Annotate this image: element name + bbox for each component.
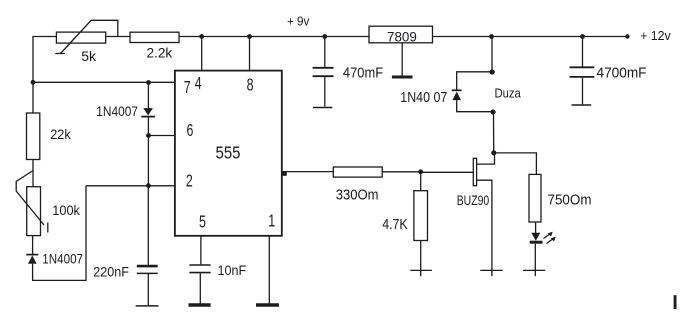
svg-text:330Om: 330Om bbox=[336, 186, 379, 203]
node junction 220nF bbox=[146, 183, 151, 188]
svg-text:BUZ90: BUZ90 bbox=[457, 193, 490, 208]
svg-text:7: 7 bbox=[184, 78, 191, 98]
wire drain node to MOSFET drain bbox=[477, 153, 495, 164]
svg-text:1N4007: 1N4007 bbox=[96, 104, 138, 119]
ground pin5 bbox=[189, 303, 211, 306]
node junction Duza rail bbox=[489, 34, 494, 39]
wire drain node to 750Om bbox=[494, 153, 536, 175]
node junction 4700mF bbox=[580, 34, 585, 39]
wire pin 1 bbox=[268, 236, 270, 304]
capacitor 10nF bbox=[189, 262, 246, 304]
potentiometer 5k bbox=[55, 20, 118, 64]
node Duza lower terminal bbox=[491, 109, 496, 114]
resistor 330Om bbox=[333, 167, 382, 203]
node junction 470mF bbox=[322, 34, 327, 39]
svg-text:5: 5 bbox=[199, 212, 206, 232]
wire pin 7 bbox=[33, 81, 175, 83]
wire 4.7K to ground bbox=[420, 241, 422, 277]
diode 1N4007 (pin7 to pin6, cathode down) bbox=[141, 108, 155, 117]
node junction pin8 rail bbox=[247, 34, 252, 39]
diode 1N4007 flyback (cathode up) bbox=[452, 90, 462, 100]
svg-text:4700mF: 4700mF bbox=[597, 65, 647, 82]
node junction pin6 bbox=[146, 133, 151, 138]
wire diode to pin6 node bbox=[147, 118, 149, 136]
wire rail end bbox=[583, 36, 628, 38]
wire 4.7K top stub bbox=[420, 172, 422, 191]
node junction diode top bbox=[146, 80, 151, 85]
wire Duza upper terminal to diode cathode bbox=[457, 72, 493, 91]
ground 4.7K bbox=[410, 269, 432, 271]
capacitor 470mF bbox=[313, 37, 384, 108]
wire rail 7809 to +12v bbox=[433, 36, 583, 38]
transistor BUZ90 MOSFET bbox=[457, 158, 492, 276]
wire pin 8 stub bbox=[249, 37, 251, 70]
node +12v terminal bbox=[625, 34, 629, 38]
svg-text:100k: 100k bbox=[52, 202, 80, 218]
svg-text:10nF: 10nF bbox=[218, 262, 247, 278]
capacitor 220nF bbox=[93, 186, 158, 306]
potentiometer 100k bbox=[16, 171, 81, 236]
svg-text:555: 555 bbox=[216, 142, 241, 162]
wire diode bottom around to pin2 bbox=[33, 186, 86, 281]
wire pin6 node down to pin2 node bbox=[147, 136, 149, 186]
node junction left rail pin7 bbox=[31, 80, 36, 85]
svg-text:2.2k: 2.2k bbox=[147, 46, 173, 61]
resistor 22k bbox=[27, 113, 71, 160]
svg-text:1: 1 bbox=[268, 212, 275, 232]
wire LED to ground bbox=[534, 244, 536, 276]
svg-text:22k: 22k bbox=[50, 126, 71, 142]
svg-text:470mF: 470mF bbox=[343, 65, 383, 81]
regulator 7809 bbox=[369, 26, 433, 45]
wire down to Duza upper terminal bbox=[491, 37, 493, 73]
svg-text:4.7K: 4.7K bbox=[382, 217, 408, 233]
svg-text:7809: 7809 bbox=[387, 29, 417, 45]
svg-text:Duza: Duza bbox=[495, 85, 522, 100]
wire diode top bbox=[147, 83, 149, 109]
ground LED bbox=[523, 269, 545, 271]
wire 100k to diode bbox=[32, 236, 34, 255]
LED bbox=[530, 232, 556, 244]
wire top-left from 5k left terminal down to 22k bbox=[33, 37, 57, 114]
wire pin 6 stub bbox=[148, 135, 175, 137]
svg-text:5k: 5k bbox=[81, 48, 97, 64]
ground 7809 bbox=[392, 43, 413, 77]
svg-text:220nF: 220nF bbox=[93, 264, 129, 279]
svg-text:750Om: 750Om bbox=[548, 192, 592, 209]
cursor mark bottom right bbox=[674, 295, 677, 309]
wire pin 5 bbox=[200, 236, 202, 264]
node drain junction bbox=[491, 150, 496, 155]
resistor 4.7K bbox=[382, 191, 427, 241]
wire diode anode to Duza lower terminal bbox=[457, 100, 493, 112]
svg-text:6: 6 bbox=[187, 121, 194, 141]
node Duza upper terminal bbox=[490, 69, 495, 74]
wire 330Om to gate node bbox=[382, 171, 421, 173]
wire Duza lower terminal to drain node bbox=[493, 112, 495, 153]
op-amp U1 555 timer IC bbox=[175, 71, 287, 236]
wire pin 2 bbox=[86, 185, 175, 187]
svg-text:1N40 07: 1N40 07 bbox=[400, 90, 447, 106]
pin 3 output mark bbox=[282, 171, 287, 176]
svg-text:1N4007: 1N4007 bbox=[42, 252, 83, 267]
node junction 4.7K bbox=[418, 169, 423, 174]
svg-text:+ 12v: + 12v bbox=[640, 28, 671, 43]
wire +9v rail from 2.2k to 7809 bbox=[179, 36, 369, 38]
wire 750Om to LED bbox=[535, 222, 537, 233]
svg-text:8: 8 bbox=[247, 75, 254, 95]
svg-text:2: 2 bbox=[186, 172, 193, 192]
resistor 750Om bbox=[529, 174, 592, 222]
node junction pin4 rail bbox=[199, 34, 204, 39]
wire 5k to 2.2k bbox=[106, 36, 130, 38]
ground BUZ90 source bbox=[480, 269, 502, 271]
capacitor 4700mF bbox=[570, 37, 647, 106]
wire 22k to 100k bbox=[32, 160, 34, 187]
wire gate node to MOSFET gate bbox=[421, 171, 474, 173]
svg-text:+ 9v: + 9v bbox=[287, 14, 310, 28]
ground pin1 bbox=[256, 303, 279, 306]
diode 1N4007 (bottom left, cathode up) bbox=[26, 255, 38, 264]
svg-text:4: 4 bbox=[195, 74, 202, 94]
resistor 2.2k bbox=[130, 32, 179, 61]
wire pin 4 stub bbox=[201, 37, 203, 70]
wire pin 3 output bbox=[283, 171, 334, 173]
